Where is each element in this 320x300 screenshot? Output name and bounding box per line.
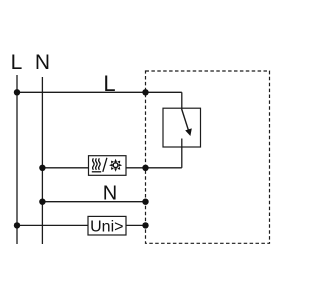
node: junction N line / N wire: [39, 199, 45, 205]
load box: heating / cooling icons: [89, 156, 127, 176]
node: junction load wire / enclosure border: [142, 165, 148, 171]
svg-text:N: N: [103, 182, 117, 204]
node: junction L line / Uni wire: [14, 222, 20, 228]
node: junction L line / L wire: [14, 89, 20, 95]
svg-text:L: L: [11, 51, 23, 74]
wire: Uni control wire: [17, 224, 146, 226]
wire: heating/cooling load wire: [42, 167, 181, 169]
wire: N vertical line: [41, 77, 43, 244]
node: junction N line / load wire: [39, 165, 45, 171]
wire: L horizontal to switch: [17, 91, 182, 93]
node: junction N wire / enclosure border: [142, 199, 148, 205]
wire: L vertical line: [16, 75, 18, 244]
switch S1 (relay contact in enclosure): [163, 92, 201, 168]
svg-text:Uni>: Uni>: [90, 219, 123, 236]
node: junction L wire / enclosure border: [142, 89, 148, 95]
node: junction Uni wire / enclosure border: [142, 222, 148, 228]
svg-text:N: N: [35, 51, 50, 74]
dashed device enclosure: [146, 71, 270, 243]
wire: N horizontal to device: [42, 201, 145, 203]
svg-text:L: L: [103, 71, 115, 96]
Uni> box (universal input): [88, 216, 126, 235]
